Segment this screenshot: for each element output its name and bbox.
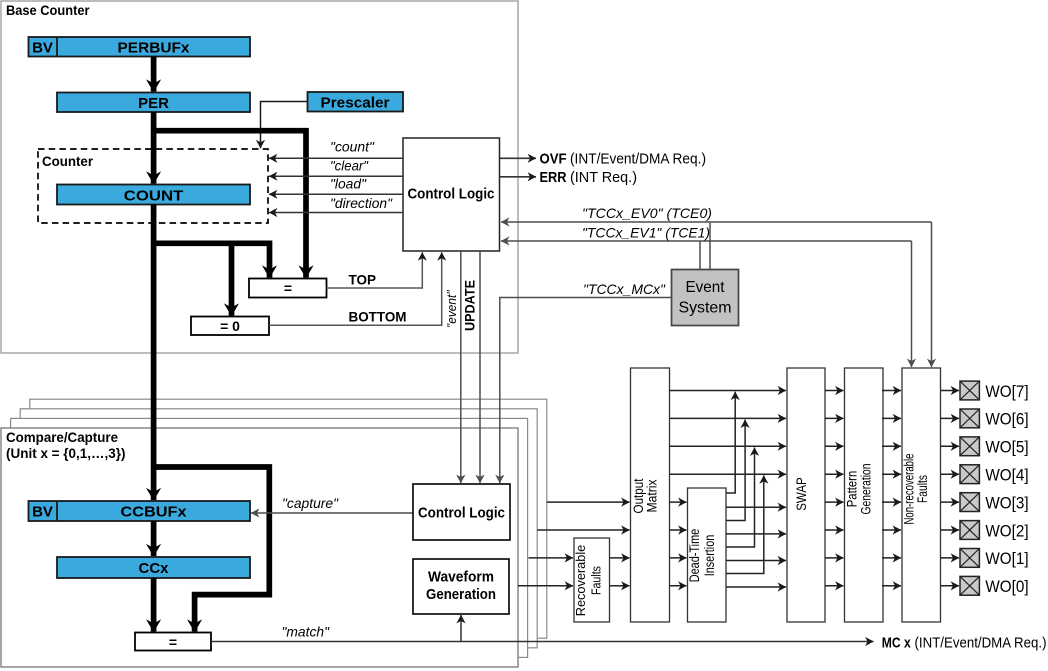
wire row WO[6] Non-recoverable Faults to pad: [941, 417, 960, 419]
svg-text:CCBUFx: CCBUFx: [121, 504, 188, 521]
wire row WO[0] Output Matrix/DTI to SWAP: [670, 585, 687, 587]
wire row WO[2] Output Matrix/DTI to SWAP: [670, 529, 687, 531]
wire row WO[0] SWAP to Pattern Generation: [825, 585, 844, 587]
svg-text:"TCCx_EV1" (TCE1): "TCCx_EV1" (TCE1): [582, 224, 710, 240]
wire TCCx_EV1 event input: [501, 240, 912, 242]
svg-text:"count": "count": [330, 138, 375, 154]
wire capture from Control Logic to CCBUFx: [251, 512, 413, 514]
comparator = 0 (BOTTOM): [191, 317, 269, 336]
svg-text:"TCCx_MCx": "TCCx_MCx": [583, 281, 666, 297]
register CCx: [57, 557, 250, 578]
wire Dead-Time complementary output 3 up to row 4: [726, 475, 764, 573]
wire Dead-Time complementary output 0 up to row 1: [726, 392, 735, 493]
pad WO[1]: [960, 549, 979, 568]
Compare/Capture stacked unit box 3: [20, 409, 537, 648]
wire Event System to EV1 line: [699, 241, 701, 270]
svg-text:BV: BV: [32, 40, 53, 57]
wire unit1 output to Recoverable Faults: [529, 557, 574, 559]
svg-text:UPDATE: UPDATE: [462, 280, 478, 331]
svg-text:Waveform: Waveform: [428, 569, 494, 586]
pad WO[2]: [960, 521, 979, 540]
svg-text:Base Counter: Base Counter: [6, 3, 90, 18]
wire count from Control Logic to Counter: [269, 157, 403, 159]
wire row WO[1] Output Matrix/DTI to SWAP: [670, 557, 687, 559]
svg-text:BV: BV: [32, 504, 53, 521]
wire CCBUFx to CCx: [151, 521, 157, 556]
svg-text:Counter: Counter: [42, 154, 94, 169]
wire clear from Control Logic to Counter: [269, 175, 403, 177]
pad WO[6]: [960, 409, 979, 428]
Compare/Capture stacked unit box 2: [11, 418, 528, 657]
svg-text:Recoverable: Recoverable: [574, 545, 588, 617]
svg-text:WO[3]: WO[3]: [985, 493, 1028, 512]
svg-text:Generation: Generation: [858, 464, 873, 515]
svg-text:Dead-Time: Dead-Time: [687, 529, 702, 583]
pad WO[7]: [960, 381, 979, 400]
wire row WO[4] Non-recoverable Faults to pad: [941, 473, 960, 475]
Control Logic box (base counter): [403, 138, 500, 251]
wire BOTTOM to Control Logic: [269, 252, 442, 325]
pad WO[4]: [960, 465, 979, 484]
wire row WO[3] Non-recoverable Faults to pad: [941, 501, 960, 503]
wire row WO[2] Non-recoverable Faults to pad: [941, 529, 960, 531]
pad WO[0]: [960, 576, 979, 595]
wire row WO[1] Pattern Generation to Non-recoverable Faults: [882, 557, 901, 559]
wire row WO[5] Pattern Generation to Non-recoverable Faults: [882, 445, 901, 447]
svg-text:"TCCx_EV0" (TCE0): "TCCx_EV0" (TCE0): [582, 205, 712, 221]
wire TOP to Control Logic: [327, 252, 423, 288]
Base Counter section box: [1, 1, 518, 353]
wire row WO[4] Output Matrix/DTI to SWAP: [670, 473, 787, 475]
svg-text:MC x: MC x: [882, 635, 912, 652]
wire Recoverable Faults to Output Matrix row 8: [610, 585, 630, 587]
wire Recoverable Faults to Output Matrix row 7: [610, 557, 630, 559]
wire CCBUFx feedback loop to = comparator: [154, 467, 270, 632]
svg-text:SWAP: SWAP: [794, 477, 809, 511]
svg-text:PER: PER: [138, 95, 169, 112]
wire row WO[6] SWAP to Pattern Generation: [825, 417, 844, 419]
wire row WO[4] SWAP to Pattern Generation: [825, 473, 844, 475]
svg-text:(INT/Event/DMA Req.): (INT/Event/DMA Req.): [915, 636, 1047, 652]
svg-text:OVF: OVF: [540, 151, 567, 168]
svg-text:Faults: Faults: [590, 566, 604, 595]
svg-text:Insertion: Insertion: [702, 535, 717, 577]
svg-text:WO[1]: WO[1]: [985, 549, 1028, 568]
wire match output to MCx: [211, 641, 874, 643]
svg-text:=: =: [169, 634, 177, 650]
wire row WO[1] SWAP to Pattern Generation: [825, 557, 844, 559]
wire Prescaler to Counter clock: [261, 102, 308, 149]
wire direction from Control Logic to Counter: [269, 212, 403, 214]
comparator = (match): [135, 633, 211, 651]
wire Event System to EV0 line: [709, 222, 711, 270]
svg-text:WO[5]: WO[5]: [985, 438, 1028, 457]
wire TCCx_EV0 event input: [501, 221, 932, 223]
wire unit3 compare output to Output Matrix: [547, 501, 630, 503]
svg-text:Control Logic: Control Logic: [418, 505, 505, 522]
svg-text:(INT Req.): (INT Req.): [570, 170, 637, 186]
wire row WO[3] Output Matrix/DTI to SWAP: [670, 501, 687, 503]
svg-text:TOP: TOP: [349, 272, 377, 288]
svg-text:=: =: [284, 280, 292, 296]
svg-text:Faults: Faults: [915, 475, 930, 503]
svg-text:(Unit x = {0,1,…,3}): (Unit x = {0,1,…,3}): [6, 446, 126, 461]
svg-text:System: System: [679, 300, 732, 317]
svg-text:Matrix: Matrix: [645, 479, 660, 512]
svg-text:Control Logic: Control Logic: [408, 186, 495, 203]
wire row WO[7] Output Matrix/DTI to SWAP: [670, 390, 787, 392]
svg-text:CCx: CCx: [138, 560, 169, 577]
wire TOP branch from PER line to = comparator: [154, 131, 306, 278]
svg-text:COUNT: COUNT: [124, 188, 184, 205]
pad WO[5]: [960, 437, 979, 456]
Output Matrix box: [631, 368, 670, 622]
wire COUNT down to compare/capture CCBUFx: [151, 205, 157, 501]
wire row WO[0] Pattern Generation to Non-recoverable Faults: [882, 585, 901, 587]
wire row WO[6] Output Matrix/DTI to SWAP: [670, 417, 787, 419]
Compare/Capture front unit box: [1, 428, 518, 667]
wire row WO[7] Pattern Generation to Non-recoverable Faults: [882, 390, 901, 392]
svg-text:= 0: = 0: [220, 318, 240, 334]
register Prescaler: [308, 92, 404, 112]
wire match to Waveform Generation: [460, 615, 462, 642]
wire unit0 output to Recoverable Faults: [518, 585, 573, 587]
svg-text:ERR: ERR: [540, 169, 567, 186]
Counter dashed box: [38, 149, 268, 223]
svg-text:Prescaler: Prescaler: [321, 95, 390, 112]
svg-text:WO[0]: WO[0]: [985, 577, 1028, 596]
wire load from Control Logic to Counter: [269, 193, 403, 195]
svg-text:"direction": "direction": [330, 195, 393, 211]
register COUNT: [57, 185, 250, 205]
wire row WO[1] Non-recoverable Faults to pad: [941, 557, 960, 559]
wire row WO[5] Non-recoverable Faults to pad: [941, 445, 960, 447]
Control Logic box (compare/capture): [413, 484, 510, 540]
register PERBUFx with BV field: [29, 37, 251, 57]
svg-text:BOTTOM: BOTTOM: [349, 309, 407, 325]
wire CCx to = comparator: [151, 578, 157, 632]
wire Dead-Time complementary output 1 up to row 2: [726, 420, 745, 521]
comparator = (TOP): [249, 279, 327, 298]
wire row WO[6] Pattern Generation to Non-recoverable Faults: [882, 417, 901, 419]
svg-text:WO[6]: WO[6]: [985, 410, 1028, 429]
Compare/Capture stacked unit box 4: [30, 399, 547, 638]
wire row WO[5] Output Matrix/DTI to SWAP: [670, 445, 787, 447]
svg-text:Event: Event: [686, 279, 726, 296]
wire row WO[4] Pattern Generation to Non-recoverable Faults: [882, 473, 901, 475]
pad WO[3]: [960, 493, 979, 512]
wire unit2 compare output to Output Matrix: [537, 529, 629, 531]
wire event down to CC Control Logic: [460, 251, 462, 483]
wire branch to = comparator: [154, 243, 270, 277]
svg-text:(INT/Event/DMA Req.): (INT/Event/DMA Req.): [570, 152, 706, 168]
SWAP box: [787, 368, 825, 622]
svg-text:"match": "match": [282, 624, 331, 640]
wire row WO[7] SWAP to Pattern Generation: [825, 390, 844, 392]
svg-text:"clear": "clear": [330, 157, 369, 173]
svg-text:WO[2]: WO[2]: [985, 521, 1028, 540]
svg-text:WO[7]: WO[7]: [985, 382, 1028, 401]
wire OVF output: [500, 157, 537, 159]
svg-text:Generation: Generation: [426, 586, 496, 603]
wire row WO[0] Non-recoverable Faults to pad: [941, 585, 960, 587]
register CCBUFx with BV field: [29, 501, 251, 521]
Pattern Generation box: [845, 368, 884, 622]
register PER: [57, 93, 250, 113]
wire row WO[2] SWAP to Pattern Generation: [825, 529, 844, 531]
wire ERR output: [500, 176, 537, 178]
wire branch to zero comparator: [229, 243, 235, 315]
Non-recoverable Faults box: [902, 368, 941, 622]
svg-text:WO[4]: WO[4]: [985, 466, 1028, 485]
wire row WO[5] SWAP to Pattern Generation: [825, 445, 844, 447]
svg-text:"event": "event": [444, 289, 459, 328]
Dead-Time Insertion box: [688, 488, 727, 622]
svg-text:Compare/Capture: Compare/Capture: [6, 430, 118, 445]
wire TCCx_MCx from Event System to CC Control Logic: [500, 298, 672, 484]
Event System box: [672, 270, 739, 326]
Waveform Generation box: [413, 559, 509, 614]
wire row WO[2] Pattern Generation to Non-recoverable Faults: [882, 529, 901, 531]
wire PERBUFx to PER: [151, 57, 157, 92]
wire row WO[7] Non-recoverable Faults to pad: [941, 390, 960, 392]
svg-text:"load": "load": [330, 176, 367, 192]
svg-text:"capture": "capture": [282, 495, 339, 511]
svg-text:PERBUFx: PERBUFx: [118, 40, 191, 57]
wire Dead-Time complementary output 2 up to row 3: [726, 448, 755, 548]
wire row WO[3] Pattern Generation to Non-recoverable Faults: [882, 501, 901, 503]
wire row WO[3] SWAP to Pattern Generation: [825, 501, 844, 503]
wire UPDATE down to CC Control Logic: [479, 251, 481, 483]
Recoverable Faults box: [574, 538, 610, 622]
wire PER down to COUNT: [151, 112, 157, 184]
